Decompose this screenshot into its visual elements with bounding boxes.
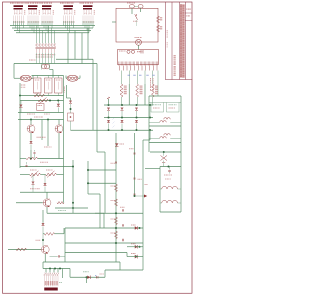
capacitor C10 xyxy=(120,207,125,212)
resistor R5 xyxy=(46,171,57,178)
transformer TR6 winding a xyxy=(162,186,178,189)
wires middle drops xyxy=(129,84,145,105)
power module U1 outline xyxy=(116,8,158,42)
junction xyxy=(49,268,61,270)
lamp H1 xyxy=(135,37,143,45)
wire Q2 base xyxy=(30,120,33,125)
TVS label xyxy=(83,271,89,272)
wire vertical net x93 xyxy=(92,59,95,130)
wire TVS down xyxy=(85,277,88,283)
junction xyxy=(30,158,32,160)
capacitor C2 xyxy=(26,162,28,167)
Q2 value text xyxy=(37,137,46,138)
wire net y174 xyxy=(20,173,64,176)
transformer text xyxy=(164,175,172,180)
small box B1 xyxy=(68,113,74,130)
wire net bottom of boxes xyxy=(20,94,64,97)
resistor R12 xyxy=(136,84,143,97)
wire net y252 xyxy=(65,251,127,254)
wire vertical net x97 xyxy=(96,64,99,153)
resistor R7 xyxy=(45,233,55,236)
wire rail x64 xyxy=(62,76,65,203)
resistor R8 xyxy=(16,248,27,251)
red vertical net names xyxy=(150,78,154,91)
diode D18 xyxy=(69,101,72,114)
net text y189 xyxy=(30,188,40,189)
choke L4 wires xyxy=(149,137,181,139)
diode D6 xyxy=(42,223,45,246)
title block rotated title text xyxy=(180,4,185,78)
wire rail x120 xyxy=(119,262,122,270)
value text row xyxy=(27,114,50,115)
capacitor C8 xyxy=(134,178,142,180)
wire net y155 stub xyxy=(30,150,33,159)
diode D10 xyxy=(107,120,110,130)
wire net y112 xyxy=(18,111,64,114)
diode D2 xyxy=(19,101,22,113)
resistor R3 xyxy=(26,157,38,160)
wire conn drops xyxy=(43,262,58,273)
transistor Q5 xyxy=(41,246,49,254)
resistor R1 xyxy=(34,94,45,97)
diode D11 xyxy=(121,120,124,130)
junction xyxy=(49,100,59,102)
wire y168 net xyxy=(145,167,160,170)
capacitor C6 xyxy=(129,148,136,154)
branch text xyxy=(64,87,65,93)
filter outer box xyxy=(149,96,181,212)
relay RE1 box xyxy=(151,103,164,113)
blue net labels xyxy=(128,75,155,76)
resistor R6 xyxy=(57,202,64,205)
wire net y277 xyxy=(70,269,105,278)
net text y163 xyxy=(40,162,48,163)
wire x150 col xyxy=(149,105,151,118)
wire Q4 base xyxy=(16,201,43,204)
diode D16 xyxy=(131,253,138,259)
diode D1 xyxy=(57,101,60,113)
wire bus line 2 xyxy=(12,27,93,30)
gate-drive transformer TR2 xyxy=(25,3,40,23)
wire rail x134 xyxy=(133,133,136,196)
wire net y247 right xyxy=(127,245,143,248)
wire R11 down xyxy=(121,97,123,105)
wires U2 outputs xyxy=(122,71,159,97)
capacitor C7 xyxy=(111,162,118,164)
choke L3 wires xyxy=(149,121,181,123)
wire net y63 xyxy=(14,62,97,65)
transformer TR6 winding b xyxy=(162,200,178,203)
wire net y228 xyxy=(65,227,143,230)
resistor R16 xyxy=(111,218,118,225)
resistor R4 xyxy=(30,171,41,178)
transformer box xyxy=(160,167,181,213)
diode D7 xyxy=(107,108,110,118)
fuse F1 xyxy=(127,3,143,9)
resistor R10 on box edge xyxy=(157,25,163,32)
relay RE2 box xyxy=(167,103,180,113)
wire net y213 xyxy=(95,212,143,214)
wires fuse pins xyxy=(132,8,141,14)
wire R12 down xyxy=(136,97,138,105)
diode D12 xyxy=(135,120,138,130)
gate-drive transformer TR4 xyxy=(60,3,75,23)
wires box pins xyxy=(37,76,58,96)
wire net y170 xyxy=(87,169,116,171)
U2 pin stubs xyxy=(120,66,158,71)
wires TR2 pins to bus xyxy=(28,21,38,33)
wire L1 right xyxy=(32,76,34,79)
choke L3 coil b xyxy=(164,118,171,120)
varistor RV1 xyxy=(161,151,168,167)
wires bus drops to lower nets xyxy=(68,28,88,64)
diode D13 xyxy=(115,143,124,146)
blue annotation dashes xyxy=(113,118,115,128)
choke L1 xyxy=(20,75,31,81)
wire Q4 emitter xyxy=(46,207,49,213)
choke L2 xyxy=(67,75,78,81)
wire T1 to right xyxy=(50,70,54,79)
junction xyxy=(168,166,170,168)
U2 bottom pin comb xyxy=(119,62,158,66)
wire Q5 emitter xyxy=(44,254,47,263)
L1 value text xyxy=(21,85,26,88)
sheet frame border xyxy=(3,2,193,293)
switch S1 xyxy=(133,14,138,26)
junction xyxy=(72,166,74,210)
wire rail x65 xyxy=(64,228,67,262)
transistor Q4 xyxy=(43,199,51,207)
capacitor C3 xyxy=(50,255,66,257)
capacitor C13 xyxy=(97,274,104,279)
wires lamp pins xyxy=(137,45,140,49)
Q3 value text xyxy=(44,147,52,148)
capacitor C12 xyxy=(122,239,123,242)
diode D3 xyxy=(30,141,33,150)
wire X2 right xyxy=(61,269,64,279)
connector X1 pin header xyxy=(36,44,56,58)
box component K2 xyxy=(45,78,53,93)
gate-drive transformer TR1 xyxy=(10,3,25,23)
wire corner x88 xyxy=(88,161,100,228)
junction xyxy=(19,95,21,97)
wire R13 down xyxy=(152,97,154,105)
wire into L1 left xyxy=(14,64,20,79)
wire net y117 xyxy=(104,116,153,119)
title block grid xyxy=(165,2,192,80)
diode D14 xyxy=(131,225,141,230)
resistor R14 xyxy=(111,185,118,192)
net name text xyxy=(34,117,43,118)
wire rail x73 xyxy=(72,160,75,213)
gate-drive transformer TR5 xyxy=(80,3,95,23)
wire bus line 3 xyxy=(14,29,91,32)
wires between Q2 Q3 xyxy=(42,120,48,147)
X2 label text xyxy=(59,282,62,283)
transistor Q2 xyxy=(27,125,35,133)
R1 value text xyxy=(35,93,42,94)
wires bus to connector X1 xyxy=(37,26,55,44)
wire relay tops xyxy=(149,102,181,104)
wire net y59 xyxy=(56,58,93,61)
capacitor C9 and off-page arrow xyxy=(134,194,148,198)
wire net y119 xyxy=(18,118,64,121)
wire net y166 xyxy=(20,165,73,168)
resistor R11 xyxy=(120,84,127,97)
wire net y100 xyxy=(20,99,64,102)
title block small left text xyxy=(167,30,169,48)
transistor Q3 xyxy=(55,125,63,133)
wire col A up xyxy=(107,97,110,105)
wires TR1 pins to bus xyxy=(14,21,24,33)
wire net y105 xyxy=(104,104,153,107)
wire net y208 xyxy=(55,207,88,210)
wire net y262 xyxy=(43,261,120,264)
current transformer T1 xyxy=(42,64,50,70)
choke L3 coil a xyxy=(160,121,167,123)
capacitor C1 xyxy=(34,150,36,159)
connector X2 header xyxy=(44,273,59,291)
wire rail x143 xyxy=(142,140,145,270)
junction ladder xyxy=(115,227,117,244)
title block rotated date text xyxy=(174,55,176,76)
wire branch x66 xyxy=(67,85,71,101)
TR6 wires xyxy=(160,189,181,203)
wire R7 xyxy=(43,228,64,234)
matrix junctions xyxy=(108,104,152,131)
wire Q2 emitter down xyxy=(30,133,33,141)
resistor R2 with arrow xyxy=(38,98,49,105)
resistor R13 xyxy=(152,84,159,97)
diode D4 xyxy=(32,175,35,193)
junction xyxy=(30,119,49,121)
box component K1 xyxy=(34,78,42,93)
wire Q4 collector xyxy=(46,192,49,198)
text left of box xyxy=(145,184,148,185)
net label text xyxy=(29,60,36,61)
wire Q5 base xyxy=(8,248,41,251)
diode D17 TVS xyxy=(86,276,91,280)
resistor R17 xyxy=(111,232,118,239)
net text y208 xyxy=(58,210,66,211)
wire left rail xyxy=(19,83,22,168)
box component K3 xyxy=(55,78,63,93)
wires TR3 pins to bus xyxy=(42,21,52,33)
wire net y158 xyxy=(20,157,64,160)
wire net top of boxes xyxy=(32,74,64,77)
wire rail x116 xyxy=(115,133,118,262)
wires TR5 pins to bus xyxy=(83,21,93,33)
gate-drive transformer TR3 xyxy=(39,3,54,23)
title block revision cell text xyxy=(186,9,191,17)
diode D5 xyxy=(44,175,47,193)
capacitor C14 xyxy=(168,167,171,174)
wire x143 top xyxy=(143,130,150,140)
wire net y270 xyxy=(105,269,143,272)
transistor Q1 block xyxy=(37,104,45,111)
wire box stub left xyxy=(112,21,116,24)
resistor R15 xyxy=(111,199,118,206)
wire net y257 right xyxy=(127,253,143,257)
wire net y192 xyxy=(20,191,64,194)
R4 R5 top text xyxy=(30,170,53,171)
wire net y243 xyxy=(65,242,143,245)
wire corner x79 xyxy=(47,213,104,228)
choke L4 coil b xyxy=(164,134,171,136)
R7 text xyxy=(36,240,42,241)
wire Q3 base xyxy=(58,120,61,125)
resistor R9 on box edge xyxy=(157,16,163,23)
junction xyxy=(70,108,72,110)
wires X1 pins down xyxy=(37,53,55,64)
regulator board U2 xyxy=(118,50,159,65)
wire net y130 xyxy=(71,129,154,132)
blue mark xyxy=(95,275,96,276)
capacitor C11 xyxy=(122,224,123,226)
diode D15 xyxy=(131,243,141,248)
wire bus line 4 xyxy=(16,31,89,34)
wire Q3 emitter down xyxy=(58,133,61,159)
wires TR4 pins to bus xyxy=(64,21,74,33)
junction xyxy=(42,239,44,241)
wire net y268 xyxy=(43,267,70,270)
diode D9 xyxy=(135,108,138,118)
wire x43 down xyxy=(42,210,45,223)
wire net y183 xyxy=(87,182,116,184)
wire into L2 xyxy=(66,76,80,79)
wire bus line 1 xyxy=(10,24,95,27)
wire corner x97 mid xyxy=(97,152,105,213)
diode D8 xyxy=(121,108,124,118)
choke L4 coil a xyxy=(160,137,167,139)
